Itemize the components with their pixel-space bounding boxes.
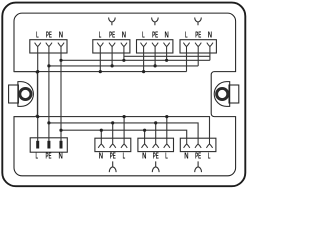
X5 pin PE: [47, 141, 50, 149]
wire: X7 N stub: [144, 130, 146, 138]
terminal block X3 (top, L PE N): [137, 40, 173, 53]
svg-text:L: L: [165, 151, 168, 161]
X7 label N: [142, 151, 146, 161]
enclosure inner wall with mounting notches: [14, 13, 236, 176]
junction X2 N / N bus: [122, 59, 125, 62]
junction X6 L / L bus bottom: [123, 115, 126, 118]
junction X6 N / N bus bottom: [100, 129, 103, 132]
X8 clamp PE: [195, 138, 201, 148]
X3 label N: [164, 29, 168, 39]
cable entry symbol above terminal block X3: [152, 18, 159, 26]
junction X7 PE / PE bus bottom: [154, 121, 157, 124]
X4 label N: [208, 29, 212, 39]
wire: X3 L stub: [143, 53, 145, 72]
wire: L bus (top) from inner wall notch to X4 L drop: [14, 71, 187, 73]
X1 clamp N: [58, 43, 64, 53]
junction X3 N / N bus: [165, 59, 168, 62]
X4 clamp L: [183, 43, 189, 53]
X4 label L: [185, 29, 188, 39]
X3 label PE: [152, 29, 158, 39]
enclosure outer wall: [2, 3, 245, 187]
X6 label L: [123, 151, 126, 161]
junction N feed / N bus bottom: [59, 129, 62, 132]
X6 clamp PE: [110, 138, 116, 148]
junction PE feed / PE bus bottom: [47, 121, 50, 124]
X4 clamp N: [207, 43, 213, 53]
X7 clamp N: [142, 138, 148, 148]
svg-text:L: L: [185, 29, 188, 39]
svg-text:L: L: [208, 151, 211, 161]
X1 label N: [59, 29, 63, 39]
junction X2 L / L bus: [99, 70, 102, 73]
svg-text:PE: PE: [152, 29, 158, 39]
cable entry symbol above terminal block X4: [195, 18, 202, 26]
X3 label L: [142, 29, 145, 39]
svg-text:N: N: [208, 29, 212, 39]
X5 label PE: [46, 151, 52, 161]
svg-text:L: L: [99, 29, 102, 39]
svg-text:N: N: [99, 151, 103, 161]
wire: X6 L stub: [123, 117, 125, 139]
X5 pin L: [36, 141, 39, 149]
X3 clamp N: [164, 43, 170, 53]
terminal block X4 (top right, L PE N): [180, 40, 216, 53]
X2 clamp N: [121, 43, 127, 53]
X7 clamp PE: [153, 138, 159, 148]
left mounting screw hole: [20, 88, 31, 99]
X2 label L: [99, 29, 102, 39]
X8 label PE: [195, 151, 201, 161]
X1 clamp L: [35, 43, 41, 53]
junction PE feed / PE bus top: [47, 64, 50, 67]
X8 clamp L: [206, 138, 212, 148]
svg-text:L: L: [123, 151, 126, 161]
X3 clamp PE: [152, 43, 158, 53]
wire: X2 PE stub: [111, 53, 113, 66]
X7 label L: [165, 151, 168, 161]
wire: L feed vertical from X1 L down to X5 pin L: [37, 53, 39, 141]
terminal block X1 (top left, L PE N): [30, 40, 67, 53]
X6 label N: [99, 151, 103, 161]
wire: X6 N stub: [100, 130, 102, 138]
wire: L bus (bottom) from inner wall notch to X8 L: [14, 117, 210, 139]
svg-text:L: L: [36, 29, 39, 39]
svg-text:N: N: [184, 151, 188, 161]
junction L feed / L bus bottom: [36, 115, 39, 118]
cable exit symbol below X7: [152, 161, 159, 172]
svg-text:PE: PE: [109, 29, 115, 39]
svg-text:PE: PE: [110, 151, 116, 161]
feed terminal block X5 (bottom left, L PE N input): [30, 138, 67, 152]
X7 label PE: [153, 151, 159, 161]
X5 label N: [59, 151, 63, 161]
right mounting screw hole: [217, 88, 228, 99]
svg-text:L: L: [36, 151, 39, 161]
X1 label PE: [46, 29, 52, 39]
X8 clamp N: [184, 138, 190, 148]
X4 clamp PE: [195, 43, 201, 53]
junction X2 PE / PE bus: [111, 64, 114, 67]
X3 clamp L: [141, 43, 147, 53]
wire: N bus (bottom) from feed N to X8 N: [61, 130, 187, 138]
junction L feed / L bus top: [36, 70, 39, 73]
svg-text:PE: PE: [46, 151, 52, 161]
wire: X2 L stub: [99, 53, 101, 72]
X6 clamp N: [98, 138, 104, 148]
junction X6 PE / PE bus bottom: [111, 121, 114, 124]
X4 label PE: [195, 29, 201, 39]
wire: X3 PE stub: [154, 53, 156, 66]
cable exit symbol below X8: [195, 161, 202, 172]
junction X3 PE / PE bus: [154, 64, 157, 67]
X6 label PE: [110, 151, 116, 161]
wire: PE bus (top) from feed PE to X4 PE drop: [49, 65, 198, 67]
svg-text:PE: PE: [195, 29, 201, 39]
terminal block X8 (bottom right, N PE L): [180, 138, 216, 151]
X2 label PE: [109, 29, 115, 39]
terminal block X2 (top, L PE N): [93, 40, 130, 53]
wire: X6 PE stub: [112, 123, 114, 138]
right mounting lug plate: [229, 85, 239, 103]
cable exit symbol below X6: [109, 161, 116, 172]
X6 clamp L: [121, 138, 127, 148]
svg-text:N: N: [59, 151, 63, 161]
wire: N feed vertical from X1 N down to X5 pin N: [60, 53, 62, 141]
X2 label N: [122, 29, 126, 39]
junction N feed / N bus top: [59, 59, 62, 62]
left mounting lug body: [18, 82, 34, 107]
svg-text:PE: PE: [195, 151, 201, 161]
wire: N bus (top) from feed N to X4 N drop: [61, 59, 210, 61]
X1 label L: [36, 29, 39, 39]
svg-text:N: N: [142, 151, 146, 161]
X5 label L: [36, 151, 39, 161]
terminal block X6 (bottom, N PE L): [95, 138, 131, 151]
wire: X3 N stub: [166, 53, 168, 60]
svg-text:N: N: [122, 29, 126, 39]
svg-text:PE: PE: [46, 29, 52, 39]
wire: X4 N stub: [209, 53, 211, 60]
X8 label L: [208, 151, 211, 161]
X2 clamp L: [97, 43, 103, 53]
X1 clamp PE: [46, 43, 52, 53]
svg-text:PE: PE: [153, 151, 159, 161]
junction X7 N / N bus bottom: [143, 129, 146, 132]
wire: X2 N stub: [123, 53, 125, 60]
terminal block X7 (bottom, N PE L): [138, 138, 174, 151]
wire: PE feed vertical from X1 PE down to X5 pin PE: [48, 53, 50, 141]
svg-text:N: N: [164, 29, 168, 39]
left mounting lug plate: [9, 85, 19, 103]
wire: X4 PE stub: [197, 53, 199, 66]
X2 clamp PE: [109, 43, 115, 53]
svg-text:N: N: [59, 29, 63, 39]
wire: X4 L stub: [186, 53, 188, 72]
wire: PE bus (bottom) from feed PE to X8 PE: [49, 123, 198, 138]
junction X7 L / L bus bottom: [165, 115, 168, 118]
svg-text:L: L: [142, 29, 145, 39]
cable entry symbol above terminal block X2: [109, 18, 116, 26]
X5 pin N: [60, 141, 63, 149]
X8 label N: [184, 151, 188, 161]
right mounting lug body: [214, 82, 230, 107]
wire: N link bus X2-N to X4-N (top): [124, 55, 210, 57]
wire: X7 PE stub: [155, 123, 157, 138]
X7 clamp L: [164, 138, 170, 148]
junction X3 L / L bus: [142, 70, 145, 73]
wire: X7 L stub: [166, 117, 168, 139]
